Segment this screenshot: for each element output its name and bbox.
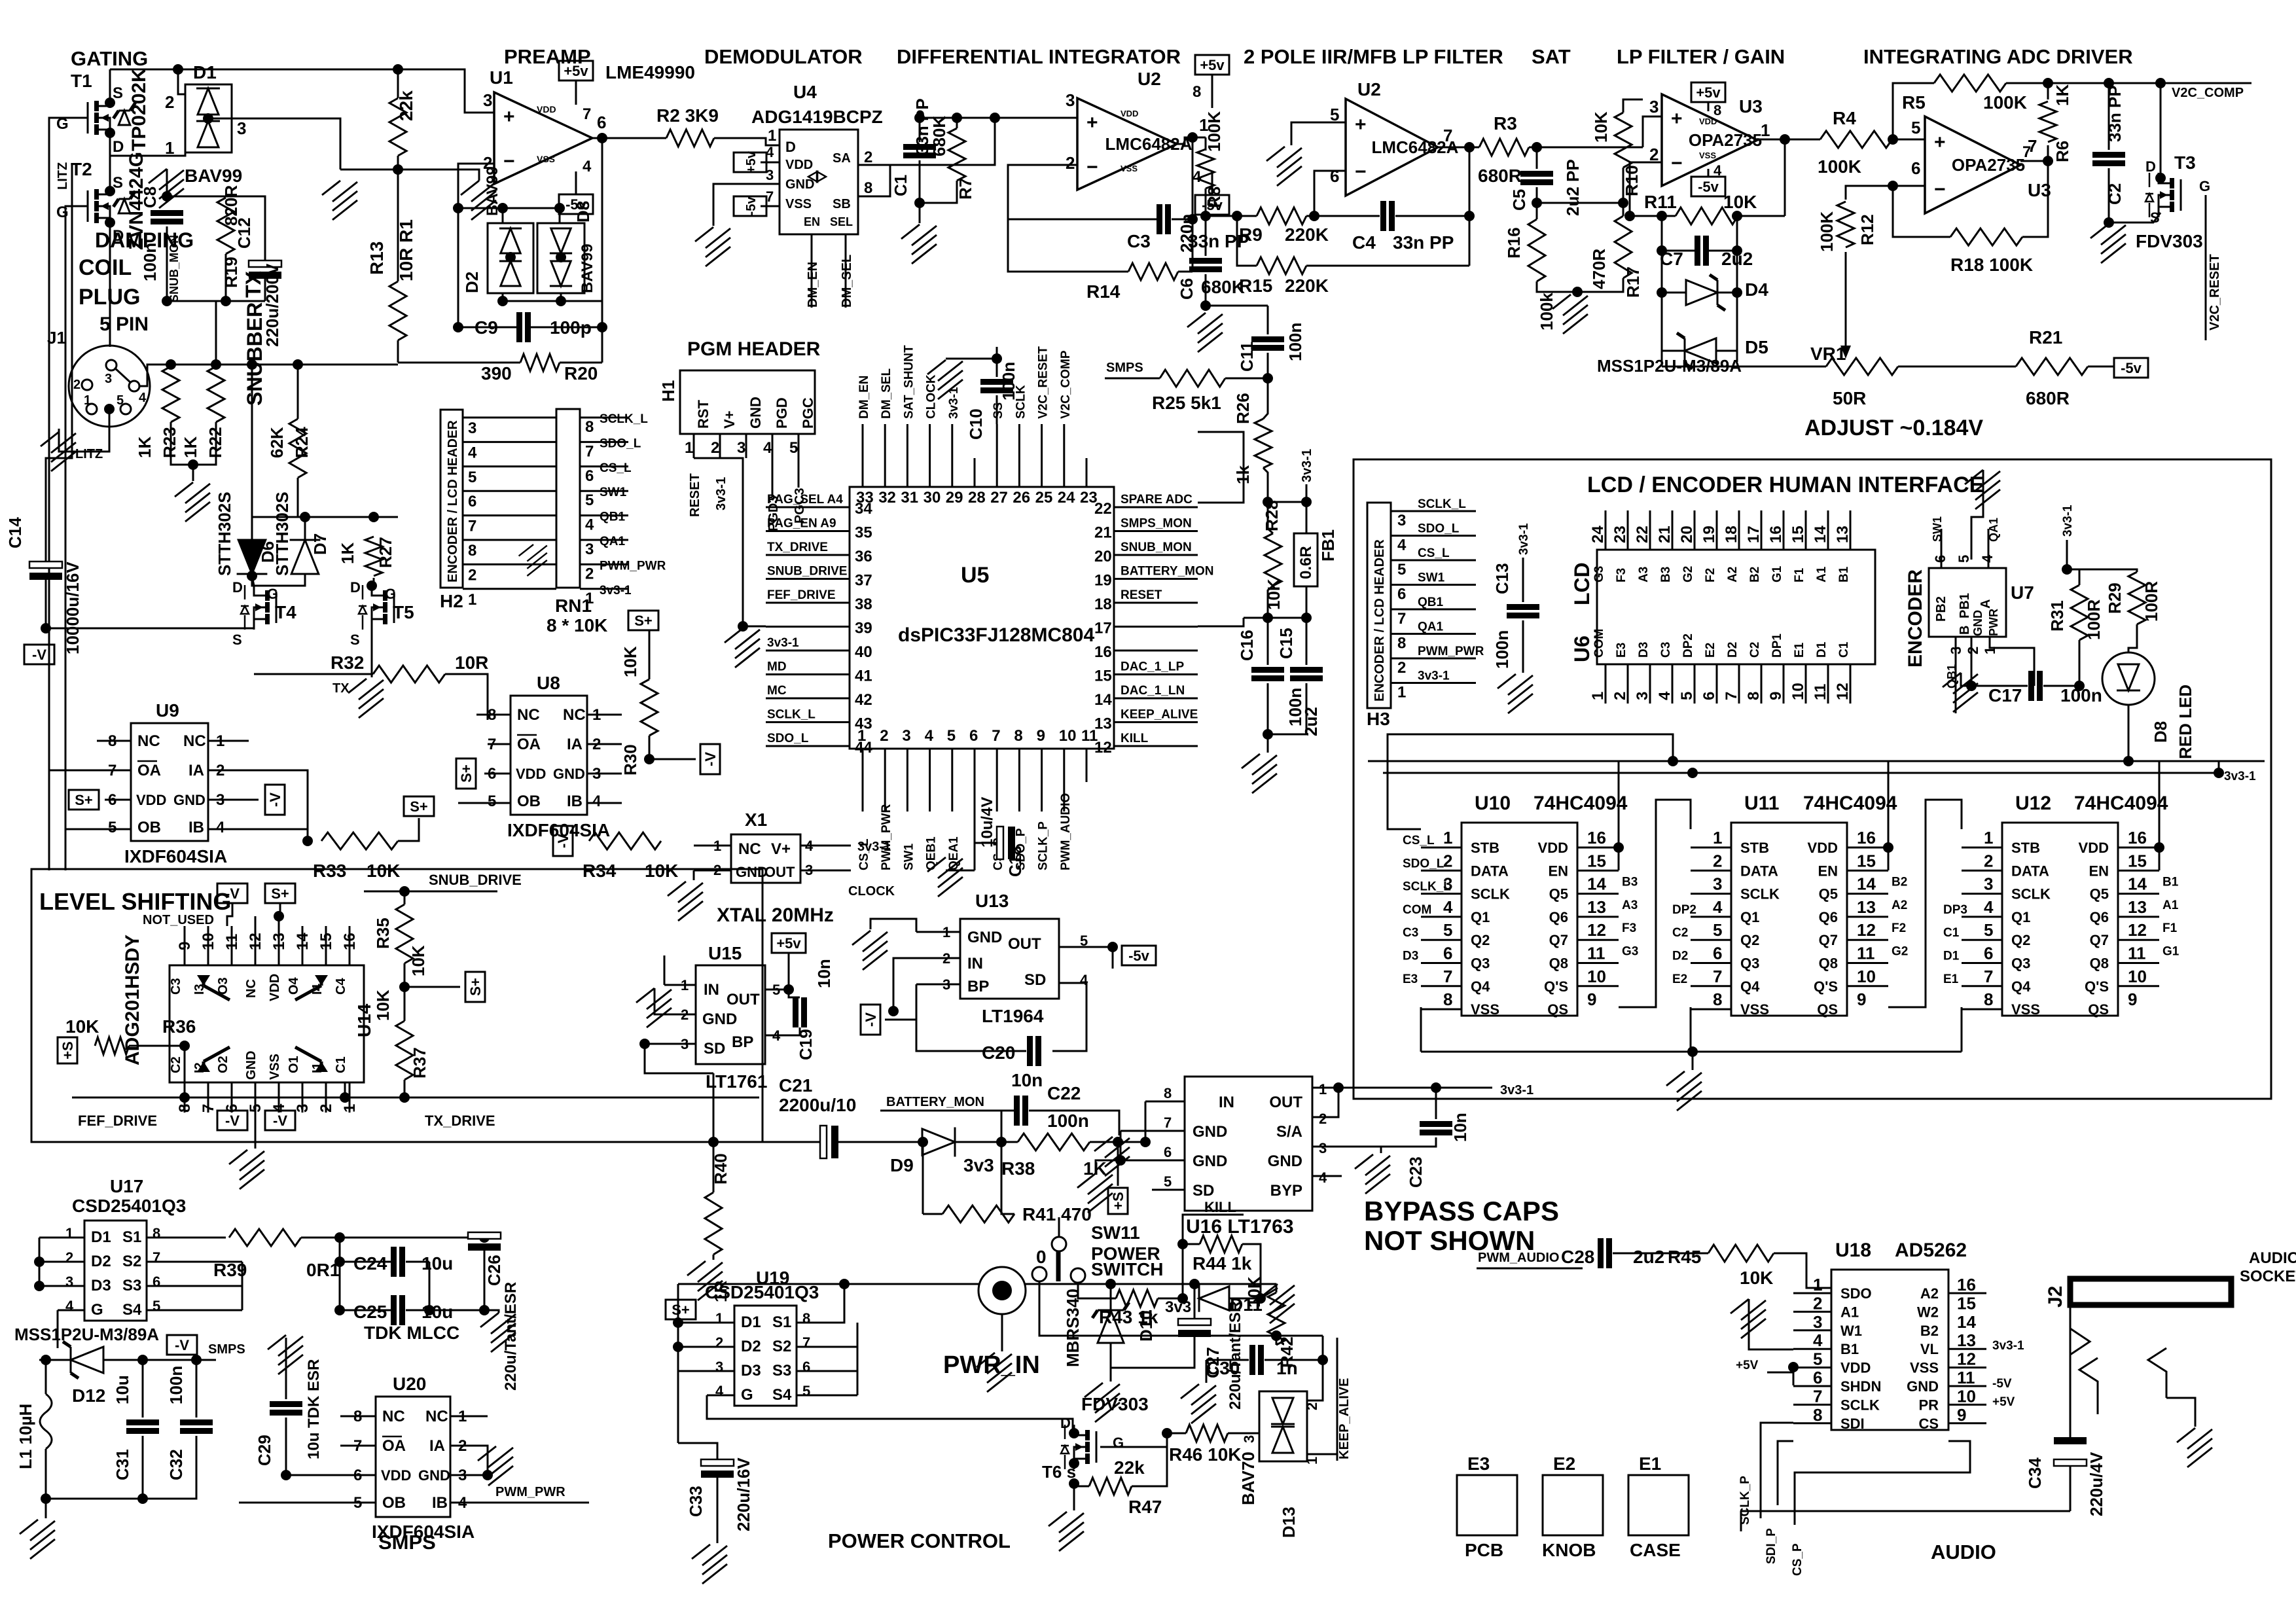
- svg-text:S+: S+: [672, 1302, 690, 1318]
- svg-text:1: 1: [585, 590, 594, 607]
- svg-text:R33: R33: [313, 861, 346, 881]
- U11 rstub 16: [1847, 847, 1888, 849]
- svg-text:15: 15: [1957, 1293, 1976, 1313]
- U7 pin1 stub: [1990, 637, 2034, 686]
- power flag S+ R33: [404, 796, 434, 816]
- resistor R35: [396, 904, 413, 963]
- en tie 2233: [1618, 847, 1620, 870]
- junction c31 bot: [137, 1493, 148, 1504]
- ground C13: [1498, 674, 1533, 713]
- svg-text:FDV303: FDV303: [1081, 1394, 1149, 1414]
- svg-text:STTH302S: STTH302S: [215, 491, 234, 576]
- svg-text:+: +: [1355, 114, 1367, 135]
- junction vss gnd: [1687, 1046, 1698, 1057]
- svg-text:680R: 680R: [1478, 166, 1522, 186]
- diode D8a: [550, 228, 572, 253]
- svg-text:100K: 100K: [1204, 111, 1224, 152]
- U5 pin39 gnd wire: [743, 615, 766, 626]
- svg-text:POWER CONTROL: POWER CONTROL: [828, 1529, 1011, 1552]
- junction u20 vdd: [281, 1470, 291, 1480]
- X1 gnd wire: [693, 870, 695, 880]
- svg-text:7: 7: [1443, 126, 1452, 145]
- IC U19: [734, 1306, 797, 1406]
- svg-text:G: G: [1113, 1435, 1124, 1451]
- wire c30 left: [1206, 1359, 1249, 1361]
- svg-text:34: 34: [855, 500, 872, 518]
- transistor T6: [1061, 1425, 1096, 1469]
- svg-text:TX_DRIVE: TX_DRIVE: [767, 541, 828, 554]
- junction sat gnd: [1572, 287, 1583, 297]
- U14 bottom stub 3: [302, 1082, 304, 1113]
- wire U1 vdd: [575, 80, 577, 105]
- U14 top stub 15: [325, 926, 327, 965]
- wire C14 top: [46, 366, 72, 562]
- svg-text:-V: -V: [225, 885, 240, 902]
- U8 pin3 stub: [587, 773, 622, 775]
- u18 gnd col: [1749, 1299, 1793, 1349]
- IC U7 encoder: [1929, 568, 2006, 637]
- svg-text:Q5: Q5: [1819, 886, 1838, 902]
- svg-text:U10: U10: [1475, 793, 1511, 814]
- op-amp U3b: [1925, 116, 2025, 213]
- svg-text:2: 2: [1984, 851, 1993, 870]
- svg-text:7: 7: [992, 727, 1000, 745]
- H3 row SCLK_L: [1391, 510, 1476, 512]
- svg-text:CLOCK: CLOCK: [848, 884, 895, 899]
- resistor R2: [666, 130, 714, 147]
- power flag +S R38: [1108, 1188, 1128, 1214]
- svg-text:6: 6: [1397, 586, 1406, 603]
- U13 out down: [1112, 947, 1114, 969]
- svg-text:ENCODER / LCD HEADER: ENCODER / LCD HEADER: [1372, 539, 1387, 702]
- resistor R7: [948, 128, 965, 181]
- U13 pin3 stub: [916, 984, 960, 986]
- capacitor C17: [2028, 671, 2043, 701]
- ground U7 top: [1965, 470, 2000, 509]
- svg-text:SW1: SW1: [600, 486, 627, 499]
- svg-text:S4: S4: [122, 1301, 142, 1319]
- ground C1: [901, 224, 937, 264]
- U8 pin2 stub: [587, 743, 622, 745]
- wire C18 col: [974, 782, 976, 870]
- U14 bottom stub 6: [231, 1082, 233, 1113]
- wire C12 top: [226, 196, 265, 260]
- svg-text:13: 13: [1834, 526, 1852, 543]
- U5 top stub 25: [1041, 458, 1043, 487]
- U17 pin8 stub: [147, 1237, 226, 1239]
- u18 rail up: [1740, 1511, 1742, 1531]
- resistor R37: [396, 1021, 413, 1080]
- svg-text:E2: E2: [1672, 972, 1687, 986]
- vss down 2233: [1420, 1007, 1422, 1052]
- svg-text:1: 1: [1813, 1275, 1822, 1294]
- svg-text:VDD: VDD: [1808, 840, 1838, 856]
- capacitor C27: [1178, 1319, 1211, 1337]
- wire adjust row: [1662, 366, 1826, 368]
- jack contact 1: [2070, 1329, 2090, 1355]
- wire r42 to 2041: [1276, 1335, 1278, 1337]
- svg-text:41: 41: [855, 668, 872, 685]
- U16 pin2 stub: [1312, 1088, 1338, 1117]
- svg-text:10u TDK ESR: 10u TDK ESR: [305, 1359, 323, 1459]
- junction D1 common: [203, 113, 213, 124]
- wire T4 source rail: [46, 628, 254, 630]
- u18 shdn join: [1793, 1367, 1795, 1385]
- wire R3 right: [1529, 147, 1643, 149]
- svg-text:R12: R12: [1857, 214, 1877, 245]
- resistor R20: [520, 354, 560, 371]
- svg-text:GND: GND: [1971, 610, 1984, 636]
- U19 pin1 stub: [678, 1322, 734, 1324]
- wire D8 top: [559, 208, 561, 223]
- ground H2 rows: [519, 544, 547, 576]
- U16 in wire: [1145, 1101, 1147, 1142]
- svg-text:-V: -V: [267, 793, 283, 807]
- power flag S+ mid: [465, 972, 485, 1002]
- resistor R32: [373, 666, 445, 683]
- U5 top wire 29: [951, 424, 953, 458]
- svg-text:R30: R30: [620, 744, 640, 776]
- diode D11: [1199, 1285, 1229, 1311]
- power flag +5v U2a: [1195, 55, 1229, 75]
- wire R15 left: [1237, 216, 1257, 266]
- U16 pin3 stub: [1312, 1147, 1381, 1153]
- svg-text:OA: OA: [517, 736, 541, 753]
- svg-text:12: 12: [1857, 920, 1876, 940]
- svg-text:23: 23: [1611, 526, 1629, 543]
- svg-text:1K: 1K: [338, 543, 357, 564]
- svg-text:C1: C1: [1943, 926, 1960, 940]
- svg-text:10R: 10R: [455, 652, 488, 673]
- IC U11: [1731, 823, 1847, 1016]
- C33 bottom: [717, 1478, 719, 1543]
- wire +in riser: [1643, 116, 1662, 147]
- junction rail 3v3r: [2214, 768, 2224, 778]
- wire C10 gnd arm: [946, 358, 997, 360]
- junction t6 s: [1069, 1458, 1079, 1469]
- svg-text:−: −: [1355, 161, 1367, 183]
- resistor R33: [321, 832, 398, 849]
- U11 rstub 11: [1847, 962, 1888, 964]
- junction fef: [179, 1092, 190, 1103]
- svg-text:VDD: VDD: [1121, 109, 1138, 118]
- svg-text:SMPS: SMPS: [1106, 361, 1143, 375]
- svg-text:S4: S4: [772, 1386, 792, 1404]
- svg-text:R23: R23: [160, 427, 179, 458]
- U17 left col: [39, 1238, 41, 1286]
- wire t6 s gnd: [1073, 1484, 1075, 1510]
- wire trunk comp: [2006, 82, 2251, 84]
- U5 left stub 41: [766, 673, 850, 675]
- svg-text:-V: -V: [555, 834, 571, 848]
- U5 top wire 26: [1018, 424, 1020, 458]
- vss rail: [1421, 1051, 1962, 1053]
- r45 right: [1774, 1253, 1831, 1288]
- wire R2 to U4: [714, 138, 780, 145]
- wire U4 SA out: [858, 164, 920, 166]
- resistor R43: [1116, 1290, 1158, 1307]
- svg-text:G1: G1: [1770, 565, 1784, 582]
- svg-text:CS_P: CS_P: [1791, 1543, 1804, 1576]
- svg-text:6: 6: [1911, 158, 1920, 178]
- svg-text:AUDIO: AUDIO: [2249, 1249, 2296, 1267]
- svg-text:100R: 100R: [2142, 581, 2161, 622]
- svg-text:R47: R47: [1128, 1497, 1162, 1517]
- svg-text:R7: R7: [956, 178, 975, 200]
- svg-text:5: 5: [152, 1298, 160, 1314]
- svg-text:Q2: Q2: [1471, 932, 1490, 948]
- junction vdd tie 2645: [1883, 842, 1893, 853]
- wire keepalive down: [1336, 1338, 1338, 1461]
- svg-text:1: 1: [1761, 120, 1770, 140]
- U9 pin3 stub: [208, 799, 259, 801]
- svg-text:37: 37: [855, 572, 872, 590]
- ground snubber top: [149, 169, 184, 208]
- wire C18 gnd: [946, 870, 975, 872]
- wire T1D to T2S: [109, 133, 111, 191]
- wire s+ node: [645, 1044, 713, 1073]
- svg-text:VDD: VDD: [2079, 840, 2109, 856]
- wire t6 g row2: [1167, 1433, 1186, 1435]
- jack gnd wire: [2166, 1398, 2195, 1427]
- svg-text:U7: U7: [2011, 582, 2034, 603]
- svg-text:T1: T1: [71, 71, 92, 91]
- svg-text:AD5262: AD5262: [1895, 1240, 1967, 1261]
- svg-text:GND: GND: [967, 929, 1002, 946]
- junction trunk r6: [2043, 78, 2053, 88]
- junction T2 D: [105, 217, 115, 228]
- U14 bottom stub 7: [207, 1082, 209, 1113]
- svg-text:TX: TX: [242, 270, 265, 298]
- wire U2a out: [1177, 137, 1206, 144]
- svg-text:PWR: PWR: [1987, 609, 2000, 636]
- svg-text:COM: COM: [1403, 903, 1431, 917]
- svg-text:-5v: -5v: [744, 196, 759, 216]
- IC U5 dsPIC33FJ128MC804: [850, 487, 1114, 749]
- svg-text:R27: R27: [376, 537, 395, 568]
- svg-text:R37: R37: [410, 1047, 429, 1079]
- U5 left stub 34: [766, 507, 850, 508]
- svg-text:QA1: QA1: [600, 535, 626, 548]
- svg-text:C4: C4: [1352, 232, 1376, 253]
- resistor R4: [1820, 131, 1892, 148]
- wire r25 right: [1225, 378, 1268, 380]
- wire damping rail: [139, 365, 398, 386]
- en tie 3059: [2159, 847, 2161, 870]
- junction T2 S: [105, 186, 115, 196]
- pad E3: [1457, 1475, 1517, 1535]
- svg-text:8: 8: [1813, 1405, 1822, 1425]
- wire R10 bottom: [1623, 168, 1624, 203]
- power flag -V u14 vss: [265, 1111, 295, 1130]
- svg-text:A3: A3: [1637, 567, 1651, 582]
- junction U3b out: [2043, 156, 2053, 166]
- svg-text:2: 2: [1066, 153, 1075, 173]
- svg-text:5: 5: [585, 491, 594, 509]
- U11 rstub 15: [1847, 870, 1888, 872]
- svg-text:A1: A1: [2162, 899, 2179, 912]
- H1 pin 1 stub: [693, 434, 695, 458]
- junction J1 pin1 wire: [104, 404, 115, 414]
- svg-text:13: 13: [1957, 1330, 1976, 1350]
- resistor R18: [1950, 228, 2022, 245]
- IC U6 LCD: [1597, 550, 1875, 664]
- svg-text:C11: C11: [1237, 342, 1257, 372]
- wire damp bottom: [171, 422, 216, 465]
- wire r31 bottom: [2079, 640, 2081, 686]
- svg-text:3: 3: [1397, 512, 1406, 529]
- svg-text:−: −: [1934, 179, 1946, 200]
- junction R11 left: [1624, 211, 1635, 221]
- svg-text:27: 27: [990, 489, 1008, 507]
- U9 pin4 stub: [208, 829, 308, 830]
- qs cascade 1: [1619, 800, 1691, 1007]
- wire clamp bottom: [503, 293, 602, 301]
- svg-text:SAT: SAT: [1532, 45, 1571, 68]
- RN1 row SCLK_L right: [580, 417, 628, 419]
- U16 pin7 stub: [1121, 1130, 1185, 1132]
- svg-text:S1: S1: [122, 1228, 141, 1246]
- U10 rstub 11: [1577, 962, 1619, 964]
- wire C6 rail: [1206, 305, 1268, 307]
- svg-text:100n: 100n: [1492, 630, 1512, 669]
- U6 bottom stub 8: [1761, 664, 1763, 704]
- junction C5 bottom: [1532, 198, 1542, 208]
- svg-text:R26: R26: [1233, 393, 1253, 424]
- C25 row: [340, 1310, 391, 1311]
- U12 lstub 1: [1962, 847, 2002, 849]
- U11 lstub 3: [1691, 893, 1731, 895]
- svg-text:7: 7: [152, 1249, 160, 1266]
- ground C10: [927, 360, 963, 399]
- svg-text:VSS: VSS: [785, 197, 812, 211]
- ground U5 pin39: [725, 628, 760, 668]
- junction C9 left: [453, 322, 463, 332]
- svg-text:3v3-1: 3v3-1: [857, 840, 891, 854]
- svg-text:VDD: VDD: [381, 1467, 411, 1484]
- wire R13 bottom: [397, 340, 399, 363]
- junction r42 bot: [1271, 1330, 1282, 1341]
- junction U2b out: [1464, 142, 1475, 152]
- svg-text:EN: EN: [2089, 863, 2109, 879]
- C33 top: [678, 1443, 717, 1459]
- diode D4: [1686, 275, 1725, 310]
- H2 row SDO_L: [463, 441, 556, 443]
- H3 row SW1: [1391, 584, 1476, 586]
- IC U18: [1831, 1270, 1948, 1430]
- U20 pin1 stub: [450, 1416, 488, 1418]
- wire U1 out: [592, 137, 627, 139]
- svg-text:3v3-1: 3v3-1: [1500, 1083, 1534, 1097]
- svg-text:11: 11: [1812, 684, 1829, 700]
- wire g to t6: [975, 1419, 1073, 1430]
- capacitor C5: [1520, 171, 1553, 185]
- svg-text:Q7: Q7: [1819, 932, 1838, 948]
- svg-text:220u/Tant/ESR: 220u/Tant/ESR: [1227, 1301, 1244, 1410]
- wire U3a -in: [1630, 162, 1662, 216]
- svg-text:QS: QS: [1817, 1001, 1838, 1018]
- svg-text:14: 14: [1957, 1312, 1976, 1332]
- svg-text:8: 8: [1713, 990, 1722, 1009]
- svg-text:3v3-1: 3v3-1: [767, 636, 799, 650]
- U5 bottom wire 9: [1041, 782, 1043, 811]
- svg-text:D8: D8: [573, 201, 593, 223]
- junction 3v3 d11: [1177, 1293, 1188, 1304]
- svg-text:S+: S+: [75, 792, 93, 808]
- svg-text:SNUB_MON: SNUB_MON: [168, 235, 181, 302]
- resistor R15: [1257, 257, 1306, 274]
- diode D10 zener: [1092, 1302, 1129, 1343]
- diode D2a: [499, 228, 522, 253]
- svg-text:1: 1: [715, 1310, 723, 1327]
- svg-text:2: 2: [1304, 1402, 1320, 1410]
- wire R18 loop: [1893, 186, 1950, 237]
- svg-text:A: A: [1979, 599, 1993, 609]
- wire U2a vss: [1211, 171, 1213, 195]
- junction c24 left: [334, 1257, 345, 1267]
- junction t6 s2: [1069, 1478, 1079, 1489]
- svg-text:S+: S+: [467, 978, 484, 996]
- u18 cs wire: [1795, 1441, 1970, 1525]
- svg-text:O2: O2: [216, 1056, 230, 1073]
- U13 bp wire: [893, 984, 916, 1020]
- svg-text:GND: GND: [702, 1010, 737, 1028]
- H2 row SCLK_L: [463, 417, 556, 419]
- header H2: [440, 410, 463, 588]
- svg-text:QS: QS: [2088, 1001, 2109, 1018]
- svg-text:NC: NC: [183, 732, 206, 750]
- svg-text:5: 5: [1911, 118, 1920, 137]
- wire r42 bot: [1276, 1336, 1278, 1345]
- svg-text:-V: -V: [225, 1113, 240, 1129]
- svg-text:B2: B2: [1920, 1323, 1939, 1339]
- svg-text:5: 5: [1164, 1173, 1172, 1190]
- svg-text:2200u/10: 2200u/10: [779, 1095, 856, 1115]
- svg-text:C34: C34: [2025, 1457, 2045, 1489]
- arrow R12 wiper: [1845, 252, 1847, 350]
- svg-text:10K: 10K: [408, 945, 428, 976]
- C23 top: [1435, 1088, 1437, 1119]
- U19 pin4 stub: [707, 1395, 734, 1397]
- diode D13a: [1271, 1398, 1295, 1424]
- U5 bottom stub 8: [1018, 749, 1020, 782]
- resistor R28: [1265, 533, 1282, 586]
- svg-text:W2: W2: [1917, 1304, 1939, 1320]
- U14 nc wire: [255, 916, 257, 926]
- R41 left: [923, 1213, 942, 1215]
- U17 pin4 stub: [58, 1310, 84, 1311]
- svg-text:NC: NC: [517, 706, 540, 724]
- svg-text:PWM_AUDIO: PWM_AUDIO: [1059, 793, 1073, 870]
- svg-text:PWM_PWR: PWM_PWR: [495, 1485, 565, 1499]
- svg-text:10R R1: 10R R1: [396, 219, 416, 281]
- svg-text:3v3-1: 3v3-1: [2061, 505, 2075, 537]
- U8 pin7 stub: [488, 743, 511, 745]
- resistor R9: [1257, 207, 1306, 224]
- wire D1 pin1: [110, 133, 185, 156]
- J1 pin 5: [120, 404, 131, 414]
- svg-text:10K: 10K: [65, 1016, 99, 1037]
- transistor T1: [88, 96, 110, 140]
- svg-text:1: 1: [165, 138, 174, 158]
- U15 sd wire: [645, 1043, 664, 1045]
- svg-text:PGC: PGC: [800, 397, 816, 429]
- svg-text:GND: GND: [418, 1467, 450, 1484]
- svg-text:2: 2: [711, 439, 719, 457]
- capacitor C26: [468, 1232, 501, 1251]
- junction d12 c31: [137, 1355, 148, 1365]
- svg-text:3v3-1: 3v3-1: [714, 477, 728, 510]
